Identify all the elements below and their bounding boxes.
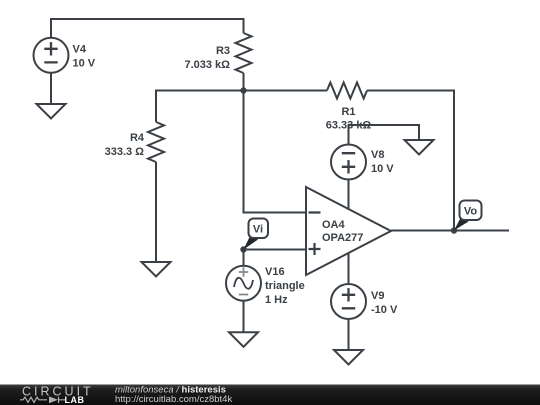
resistor R3 xyxy=(236,33,252,73)
resistor R4 xyxy=(148,122,164,162)
svg-text:Vo: Vo xyxy=(464,206,478,218)
svg-text:333.3 Ω: 333.3 Ω xyxy=(105,146,145,158)
svg-text:R1: R1 xyxy=(341,106,355,118)
wire R4 to ground xyxy=(155,162,157,262)
op-amp U1 OA4 triangle xyxy=(306,187,391,275)
junction node Vo xyxy=(451,227,457,233)
svg-text:V16: V16 xyxy=(265,266,285,278)
ground below R4 xyxy=(142,262,171,277)
svg-text:R3: R3 xyxy=(216,45,230,57)
svg-text:V9: V9 xyxy=(371,290,384,302)
svg-text:7.033 kΩ: 7.033 kΩ xyxy=(184,59,230,71)
V4 plus/minus xyxy=(44,42,57,62)
V8 minus/plus xyxy=(342,153,355,173)
ground below V9 xyxy=(334,350,363,365)
svg-text:OA4: OA4 xyxy=(322,219,346,231)
logo diode triangle xyxy=(49,396,58,403)
wire output xyxy=(391,230,509,232)
wire non-inverting input xyxy=(244,249,307,251)
junction node Vi xyxy=(240,246,246,252)
wire V16 top xyxy=(243,250,245,266)
V9 plus/minus xyxy=(342,288,355,308)
svg-text:http://circuitlab.com/cz8bt4k: http://circuitlab.com/cz8bt4k xyxy=(115,394,232,405)
svg-text:LAB: LAB xyxy=(65,395,85,405)
wire node row y=90.5 (R4 top to R1 left) xyxy=(156,91,327,123)
wire R3 bottom lead xyxy=(243,73,245,91)
wire V4 to ground xyxy=(50,73,52,105)
V16 sine symbol xyxy=(234,278,253,289)
V16 small plus/minus xyxy=(239,267,248,294)
svg-text:V4: V4 xyxy=(73,44,87,56)
svg-text:-10 V: -10 V xyxy=(371,304,398,316)
wire V9 to ground xyxy=(348,319,350,350)
svg-text:63.33 kΩ: 63.33 kΩ xyxy=(326,119,372,131)
wire V16 to ground xyxy=(243,301,245,333)
wire top from V4 to R3 xyxy=(51,19,244,38)
voltage source V8 xyxy=(331,145,366,180)
junction node at R3 bottom xyxy=(240,87,246,93)
node flag Vi xyxy=(244,219,269,250)
svg-text:OPA277: OPA277 xyxy=(322,232,363,244)
ground right of V8 xyxy=(405,140,434,155)
svg-text:10 V: 10 V xyxy=(73,58,96,70)
voltage source V4 xyxy=(34,38,69,73)
wire V8 top to ground xyxy=(349,125,420,145)
op-amp input plus/minus xyxy=(309,213,321,256)
svg-text:R4: R4 xyxy=(130,132,145,144)
svg-text:Vi: Vi xyxy=(253,224,263,236)
logo resistor-diode glyph xyxy=(20,397,65,403)
svg-text:V8: V8 xyxy=(371,149,384,161)
voltage source V16 xyxy=(226,266,261,301)
voltage source V9 xyxy=(331,284,366,319)
ground below V16 xyxy=(229,332,258,347)
node flag Vo xyxy=(454,201,482,231)
svg-text:1 Hz: 1 Hz xyxy=(265,294,288,306)
svg-text:10 V: 10 V xyxy=(371,163,394,175)
wire op-amp V- to V9 xyxy=(348,253,350,284)
ground below V4 xyxy=(37,104,66,119)
resistor R1 xyxy=(327,83,367,99)
wire inverting input from node xyxy=(244,91,307,213)
wire R1 right to output node xyxy=(367,91,454,231)
svg-text:triangle: triangle xyxy=(265,280,305,292)
wire V8 to op-amp V+ xyxy=(348,180,350,210)
